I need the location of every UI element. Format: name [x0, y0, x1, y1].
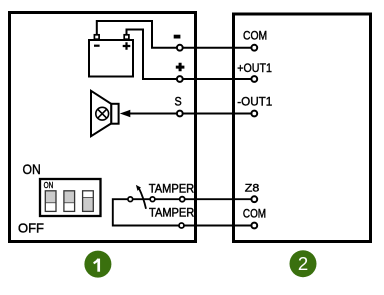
badge 2 (green circle numeral) [290, 250, 317, 277]
badge 1 (green circle numeral) [84, 251, 111, 278]
DIP rocker 3 (off) [83, 198, 94, 212]
terminal circle Z8 (right box) [251, 196, 257, 202]
svg-text:COM: COM [243, 28, 267, 42]
wire: tamper C to Z8 [185, 198, 252, 200]
svg-text:TAMPER: TAMPER [149, 182, 194, 195]
battery plus sign [123, 42, 131, 50]
svg-text:ON: ON [44, 180, 54, 190]
tamper contact circle D [179, 223, 184, 228]
svg-text:COM: COM [243, 206, 266, 220]
battery negative post [94, 35, 99, 39]
svg-text:-OUT1: -OUT1 [237, 95, 272, 109]
terminal circle S (left) [177, 111, 183, 117]
tamper blade arrowhead [136, 185, 141, 191]
tamper contact circle A [128, 197, 133, 202]
svg-text:Z8: Z8 [245, 182, 259, 194]
DIP rocker 1 (on) [45, 191, 56, 203]
svg-text:S: S [175, 94, 182, 108]
wire: speaker arrow to S terminal [130, 113, 177, 115]
label minus (left terminal) [174, 35, 181, 39]
wire: tamper D to COM [184, 225, 251, 227]
wire: tamper A to B [133, 198, 150, 200]
svg-text:2: 2 [298, 253, 308, 274]
terminal circle COM (right box) [251, 45, 257, 51]
wire: - terminal to COM terminal [183, 47, 252, 49]
terminal circle -OUT1 [251, 111, 257, 117]
speaker driver [111, 104, 118, 124]
right box (control panel, device 2) [234, 14, 371, 242]
speaker lamp (circle with X) [96, 107, 109, 120]
wire: + terminal to +OUT1 terminal [183, 78, 252, 80]
arrow into speaker [120, 110, 131, 117]
tamper contact circle C [180, 197, 185, 202]
tamper contact circle B [150, 197, 155, 202]
svg-text:+OUT1: +OUT1 [237, 61, 272, 75]
terminal circle +OUT1 [251, 76, 257, 82]
terminal circle COM bottom (right box) [251, 223, 257, 229]
terminal circle + (left) [177, 76, 183, 82]
wire: battery positive post to + terminal [127, 30, 177, 80]
label plus (left terminal) [176, 63, 185, 72]
terminal circle - (left) [177, 45, 183, 51]
DIP rocker 2 (on) [64, 191, 75, 203]
battery positive post [124, 35, 129, 39]
svg-text:TAMPER: TAMPER [149, 206, 194, 219]
tamper switch blade [139, 188, 146, 209]
left box (siren enclosure, device 1) [10, 13, 196, 242]
wire: tamper B to C [155, 198, 179, 200]
speaker LS1 horn [91, 91, 111, 136]
wire: tamper contact A left, down, to bottom contact D [113, 199, 179, 225]
DIP switch body [40, 179, 101, 216]
svg-text:OFF: OFF [18, 221, 44, 236]
battery minus sign [94, 45, 100, 47]
svg-text:ON: ON [23, 161, 41, 177]
wire: battery negative post up and over to - terminal [97, 21, 177, 48]
battery B1 body [89, 40, 133, 77]
wire: S terminal to -OUT1 terminal [183, 113, 252, 115]
